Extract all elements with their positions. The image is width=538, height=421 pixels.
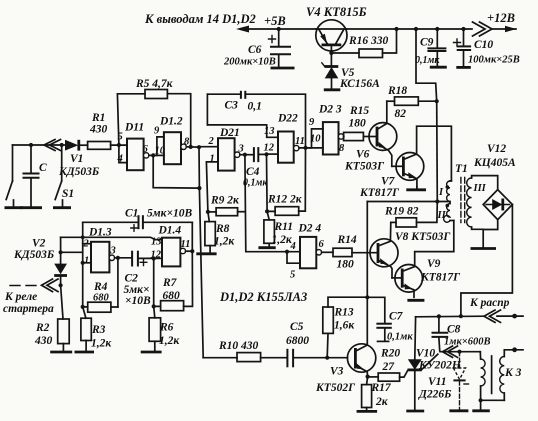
svg-text:R16 330: R16 330 — [348, 35, 389, 47]
wire out8 to D2.1 — [186, 146, 199, 148]
svg-text:III: III — [473, 183, 487, 194]
wire rail T1-I line down to V3 collector — [366, 202, 368, 346]
svg-text:0,1мк: 0,1мк — [387, 332, 413, 343]
svg-text:R7: R7 — [162, 277, 178, 289]
svg-text:R17: R17 — [371, 382, 392, 394]
svg-text:R11: R11 — [274, 221, 294, 233]
wire pin2 D2.1 — [199, 146, 218, 148]
svg-text:V1: V1 — [70, 153, 83, 165]
resistor R11 1,2k — [258, 211, 293, 247]
node R7 left / R6 — [152, 304, 156, 308]
resistor R10 430 — [203, 340, 287, 362]
svg-text:0,1: 0,1 — [248, 101, 262, 113]
svg-text:С5: С5 — [290, 321, 304, 333]
svg-text:2: 2 — [208, 136, 215, 147]
NAND gate D1.3 — [88, 227, 112, 273]
svg-text:V4 КТ815Б: V4 КТ815Б — [306, 5, 367, 19]
capacitor C3 0,1 feedback loop — [207, 91, 305, 148]
resistor R6 1,2k — [141, 306, 181, 352]
resistor R4 680 — [83, 258, 118, 312]
svg-text:V2: V2 — [32, 238, 46, 250]
svg-text:D1.4: D1.4 — [158, 225, 182, 237]
capacitor C8 1mk x600V — [432, 316, 491, 350]
node V4 base / R16 / V5 — [329, 51, 333, 55]
svg-text:6800: 6800 — [286, 335, 309, 347]
svg-text:V9: V9 — [427, 258, 441, 270]
svg-text:R12 2к: R12 2к — [267, 194, 303, 206]
svg-text:R2: R2 — [35, 322, 50, 334]
NAND gate D2.3 — [318, 104, 342, 155]
transistor V4 — [306, 5, 367, 53]
node pin10 return — [197, 186, 201, 190]
svg-text:С3: С3 — [225, 100, 239, 112]
svg-text:100мк×25В: 100мк×25В — [468, 55, 520, 66]
bridge bottom to ground — [471, 220, 498, 249]
svg-text:2к: 2к — [375, 396, 389, 408]
node D1.2out/D2.1 pin2 — [197, 145, 201, 149]
svg-text:V10: V10 — [416, 348, 435, 360]
svg-text:82: 82 — [395, 108, 407, 120]
NAND gate D1.4 — [158, 225, 182, 267]
output pin 11 circle D1.4 — [180, 248, 185, 253]
wire pin4 D1.1 — [119, 145, 127, 163]
capacitor C10 — [454, 29, 520, 67]
svg-text:D1.2: D1.2 — [159, 116, 183, 128]
node pin5 D1.1 — [117, 143, 121, 147]
svg-text:R9 2к: R9 2к — [210, 195, 240, 207]
resistor R17 2k — [357, 377, 392, 412]
svg-text:5: 5 — [290, 270, 295, 281]
node pins 9/10 — [151, 153, 155, 157]
node S1 / V1 — [60, 143, 64, 147]
node R16 right on +12 line — [394, 27, 398, 31]
svg-text:С10: С10 — [474, 39, 493, 51]
svg-text:9: 9 — [309, 117, 315, 128]
NAND gate D2.4 — [298, 223, 322, 269]
svg-text:1мк×600В: 1мк×600В — [444, 337, 491, 348]
output pin 8 circle D1.2 — [181, 144, 186, 149]
node pin2 tap — [81, 235, 85, 239]
node C8 top — [437, 314, 441, 318]
svg-text:5мк×10В: 5мк×10В — [147, 208, 193, 220]
node T1 center tap on rail — [435, 199, 439, 203]
svg-text:V8 КТ503Г: V8 КТ503Г — [395, 231, 450, 243]
node R13/C7 line on rail — [365, 295, 369, 299]
output pin 11 circle D2.2 — [294, 145, 299, 150]
capacitor C4 0,1mk — [243, 147, 268, 188]
svg-text:V11: V11 — [428, 376, 447, 388]
svg-text:8: 8 — [339, 143, 345, 154]
wire pin10 — [153, 154, 164, 156]
svg-text:R5 4,7к: R5 4,7к — [135, 78, 174, 90]
connector chevrons to +12V — [473, 11, 517, 36]
capacitor C2 5mk x10V — [124, 251, 154, 307]
svg-text:К выводам 14 D1,D2: К выводам 14 D1,D2 — [144, 12, 256, 26]
svg-text:Д226Б: Д226Б — [418, 389, 451, 401]
relay core bar — [491, 356, 493, 393]
svg-text:К реле: К реле — [4, 291, 37, 303]
node V11 top — [457, 350, 461, 354]
breaker input wire — [13, 144, 62, 146]
node R5 tap — [189, 145, 193, 149]
capacitor C5 6800 — [286, 321, 348, 367]
svg-text:КТ817Г: КТ817Г — [359, 187, 399, 199]
svg-text:С2: С2 — [125, 273, 139, 285]
svg-text:D11: D11 — [124, 122, 144, 134]
output pin 3 circle D1.3 — [109, 255, 114, 260]
svg-text:13: 13 — [264, 126, 275, 137]
svg-text:0,1мк: 0,1мк — [243, 178, 268, 189]
wire pin9 jog — [153, 137, 164, 156]
transistor V8 КТ503Г — [352, 222, 450, 278]
svg-text:С8: С8 — [447, 324, 461, 336]
output pin 8 circle D2.3 — [338, 134, 343, 139]
svg-text:13: 13 — [151, 237, 162, 248]
wire V2 to D1.3 inputs — [61, 251, 83, 253]
svg-text:2: 2 — [83, 239, 90, 250]
node out3/C4/R9 — [243, 153, 247, 157]
svg-text:430: 430 — [34, 335, 53, 347]
svg-text:200мк×10В: 200мк×10В — [223, 57, 276, 68]
transformer T1 winding I — [438, 181, 451, 202]
node R12 left / R11 — [265, 209, 269, 213]
capacitor C6 — [223, 29, 295, 68]
zener V5 КС156А — [322, 53, 380, 90]
svg-text:1,2к: 1,2к — [214, 236, 235, 248]
bridge right corner down to K raspr line — [461, 205, 513, 317]
node +12 branch — [414, 27, 418, 31]
svg-text:КД503Б: КД503Б — [58, 166, 99, 178]
breaker contact left — [5, 145, 23, 208]
svg-text:430: 430 — [89, 124, 108, 136]
rectifier bridge V12 КЦ405А — [473, 143, 516, 220]
svg-text:стартера: стартера — [3, 303, 54, 315]
wire out11 — [186, 250, 193, 252]
wire pin1 D1.3 — [83, 262, 91, 264]
wire pin9 jog D2.3 — [306, 129, 323, 148]
svg-text:D1.3: D1.3 — [88, 227, 112, 239]
svg-text:12: 12 — [264, 143, 275, 154]
svg-text:V3: V3 — [330, 366, 344, 378]
node R4 left / R3 — [81, 305, 85, 309]
svg-text:С1: С1 — [125, 208, 138, 220]
svg-text:11: 11 — [181, 239, 191, 250]
svg-text:R18: R18 — [387, 85, 407, 97]
svg-text:1,2к: 1,2к — [91, 338, 112, 350]
svg-text:10: 10 — [310, 134, 321, 145]
node C1 right / out11 — [190, 249, 194, 253]
svg-text:КТ817Г: КТ817Г — [420, 272, 460, 284]
wire +5V top line with left arrow to pins 14 D1,D2 — [236, 26, 472, 33]
svg-text:6: 6 — [319, 239, 325, 250]
wire out6 to node — [149, 154, 153, 156]
wire pin2 D1.3 — [83, 243, 91, 245]
svg-text:180: 180 — [337, 259, 355, 271]
svg-text:Т1: Т1 — [455, 163, 468, 175]
resistor R5 4,7k feedback — [117, 78, 190, 147]
node pin1 tap — [81, 261, 85, 265]
relay bottom wire to ground — [472, 398, 504, 411]
node V2 top line — [59, 250, 63, 254]
wire pin12 D1.4 — [154, 257, 162, 259]
switch S1 — [53, 145, 74, 208]
svg-text:V12: V12 — [487, 143, 506, 155]
node C cap — [29, 143, 33, 147]
wire out3 to C4 — [240, 154, 254, 156]
svg-text:0,1мк: 0,1мк — [415, 55, 440, 66]
K raspr line with chevrons — [416, 297, 523, 322]
wire T1 primary center line — [367, 201, 448, 203]
node D2.4 input — [285, 250, 289, 254]
svg-text:КТ502Г: КТ502Г — [315, 382, 355, 394]
node C4 right / pin12 — [264, 152, 268, 156]
resistor R12 2k — [267, 148, 306, 215]
resistor R19 82 — [384, 202, 437, 228]
svg-text:1,6к: 1,6к — [334, 320, 355, 332]
svg-text:V6: V6 — [356, 149, 370, 161]
node starter connection — [59, 283, 63, 287]
relay K3 winding right — [500, 347, 523, 400]
svg-text:КУ202Н: КУ202Н — [418, 360, 462, 372]
node R18 right on rail — [435, 99, 439, 103]
svg-text:R10 430: R10 430 — [218, 340, 259, 352]
svg-text:К распр: К распр — [469, 297, 510, 309]
resistor R14 180 — [322, 234, 357, 271]
transformer T1 winding II — [437, 202, 454, 223]
svg-text:680: 680 — [163, 290, 181, 302]
wire out3 node down to D2.4 inputs — [245, 155, 300, 252]
NAND gate D1.2 — [159, 116, 183, 165]
node C2/pin12/R7 — [152, 256, 156, 260]
svg-text:R13: R13 — [334, 307, 354, 319]
svg-text:S1: S1 — [62, 188, 74, 200]
svg-text:D21: D21 — [219, 127, 240, 139]
transformer T1 core — [455, 163, 468, 223]
svg-text:С6: С6 — [248, 44, 262, 56]
svg-text:R1: R1 — [91, 112, 105, 124]
NAND gate D2.1 — [218, 127, 240, 171]
resistor R2 430 — [34, 285, 72, 352]
wire +12 branch down to rail — [416, 29, 437, 101]
svg-text:1,2к: 1,2к — [159, 335, 180, 347]
resistor R8 1,2k — [196, 212, 235, 254]
wire pin10 of D1.2 down and right to rail — [153, 155, 199, 188]
svg-text:12: 12 — [151, 250, 162, 261]
resistor R15 180 — [344, 105, 370, 141]
resistor R1 430 — [88, 112, 127, 149]
transistor V7 КТ817Г — [359, 126, 451, 199]
thyristor gate line with chevrons — [440, 346, 480, 357]
svg-text:КЦ405А: КЦ405А — [473, 157, 516, 169]
resistor R18 82 — [387, 85, 437, 120]
transistor V9 КТ817Г — [392, 221, 460, 301]
wire C1 right down through out11 to R7 right — [184, 222, 193, 306]
output pin 6 circle D1.1 — [144, 153, 149, 158]
connector chevrons to starter relay — [3, 279, 58, 315]
svg-text:6: 6 — [143, 144, 149, 155]
svg-text:3: 3 — [110, 246, 116, 257]
wire out3 to C2 — [115, 257, 132, 259]
svg-text:I: I — [438, 187, 444, 198]
svg-text:R20: R20 — [380, 348, 400, 360]
svg-text:R4: R4 — [93, 281, 108, 293]
capacitor C1 5mk x10V — [83, 208, 193, 232]
resistor R16 330 — [331, 29, 396, 58]
resistor R7 680 — [154, 259, 184, 311]
svg-text:С7: С7 — [389, 311, 404, 323]
transformer T1 winding III secondary — [467, 176, 498, 230]
svg-text:1: 1 — [210, 154, 215, 165]
svg-text:КС156А: КС156А — [339, 78, 380, 90]
NAND gate D1.1 — [124, 122, 144, 171]
svg-text:1,2к: 1,2к — [272, 234, 293, 246]
NAND gate D2.2 — [277, 113, 298, 163]
svg-text:D2 3: D2 3 — [318, 104, 342, 116]
winding I polarity dot — [446, 185, 450, 189]
wire V2 to D1.4 pin13 — [61, 237, 162, 239]
wire pin13 D2.2 from C3 loop — [208, 125, 278, 137]
svg-text:КТ503Г: КТ503Г — [344, 161, 384, 173]
svg-text:27: 27 — [382, 361, 396, 373]
output pin 6 circle D2.4 — [316, 250, 321, 255]
wire rail down to T1 line — [436, 101, 439, 201]
svg-text:К 3: К 3 — [504, 367, 522, 379]
diode V11 Д226Б (dashed) — [418, 352, 469, 411]
svg-text:R15: R15 — [349, 105, 369, 117]
output pin 3 circle D2.1 — [235, 152, 240, 157]
svg-text:3: 3 — [238, 144, 244, 155]
wire pin1 D2.1 — [206, 162, 218, 212]
wire pin5 jog D2.4 — [287, 252, 300, 264]
svg-text:D22: D22 — [277, 113, 298, 125]
svg-text:1: 1 — [84, 256, 89, 267]
resistor R9 2k — [208, 195, 245, 216]
svg-text:R3: R3 — [91, 324, 106, 336]
svg-text:180: 180 — [349, 118, 367, 130]
resistor R20 27 — [368, 348, 408, 382]
svg-text:×10В: ×10В — [125, 295, 151, 307]
relay K3 winding left — [480, 352, 485, 401]
transistor V6 КТ503Г — [344, 101, 397, 172]
wire out11 to D2.3 — [299, 147, 323, 149]
thyristor V10 КУ202Н — [406, 317, 462, 411]
svg-text:R8: R8 — [215, 223, 230, 235]
node R4 top — [116, 256, 120, 260]
svg-text:КД503Б: КД503Б — [13, 249, 54, 261]
capacitor C (breaker) — [20, 145, 47, 208]
node C9 top — [435, 27, 439, 31]
svg-text:R19 82: R19 82 — [384, 206, 419, 218]
diode V1 КД503Б — [58, 140, 99, 178]
resistor R3 1,2k — [75, 307, 113, 352]
wire pin12 D2.2 — [267, 153, 279, 155]
svg-text:4: 4 — [117, 154, 123, 165]
svg-text:R6: R6 — [159, 322, 174, 334]
svg-text:R14: R14 — [337, 234, 357, 246]
svg-text:С9: С9 — [420, 37, 434, 49]
node pin1/R9/R8 — [206, 210, 210, 214]
capacitor C7 0,1mk — [367, 297, 413, 342]
node C10 top — [461, 27, 465, 31]
node V3 base / R13 — [325, 356, 329, 360]
svg-text:+12В: +12В — [487, 11, 515, 25]
resistor R13 1,6k — [323, 297, 368, 358]
node 11 — [303, 146, 307, 150]
svg-text:11: 11 — [295, 136, 305, 147]
chevron on breaker wire — [44, 140, 61, 151]
node V3 emitter — [366, 375, 370, 379]
svg-text:С: С — [39, 162, 47, 174]
winding II polarity dot — [446, 204, 450, 208]
input rail of D1.3 — [82, 222, 84, 307]
svg-text:D1,D2 К155ЛА3: D1,D2 К155ЛА3 — [219, 290, 307, 304]
rail from node down to R10 line — [199, 147, 203, 358]
svg-text:II: II — [437, 210, 447, 221]
svg-text:С4: С4 — [246, 166, 260, 178]
capacitor C9 — [415, 29, 447, 67]
node K raspr / bridge — [459, 314, 463, 318]
node +5V / C6 junction — [277, 27, 281, 31]
transistor V3 КТ502Г — [315, 344, 376, 394]
svg-text:680: 680 — [93, 293, 110, 304]
svg-text:V7: V7 — [381, 176, 396, 188]
svg-text:D2 4: D2 4 — [298, 223, 322, 235]
svg-text:+5В: +5В — [264, 14, 286, 28]
diode V2 КД503Б — [13, 237, 67, 285]
